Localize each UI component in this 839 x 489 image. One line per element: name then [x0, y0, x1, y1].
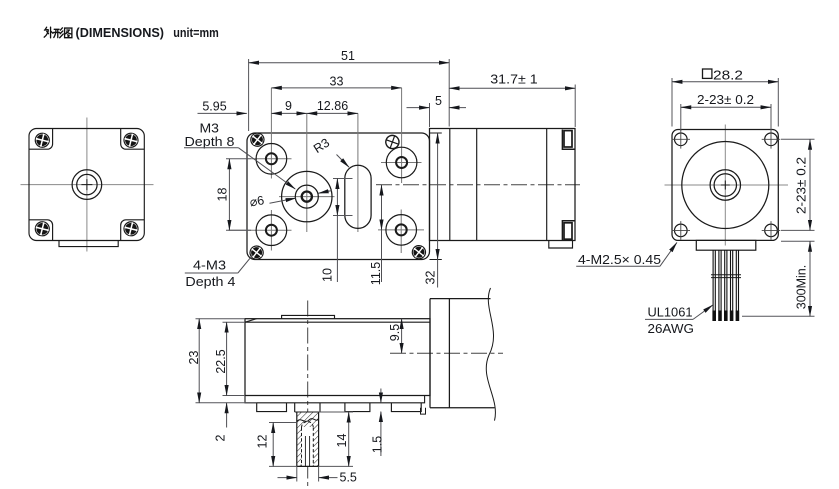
- svg-text:Depth 8: Depth 8: [185, 135, 235, 149]
- dim 5: [407, 107, 430, 109]
- svg-text:12: 12: [256, 435, 270, 449]
- inner top line: [245, 321, 430, 323]
- svg-text:(DIMENSIONS): (DIMENSIONS): [76, 26, 165, 40]
- hole crosshair BL: [229, 210, 292, 251]
- dim 33: [271, 87, 401, 89]
- mounting hole BR: [386, 215, 417, 246]
- hub circles view1: [72, 170, 102, 200]
- rear corner hole TL: [672, 130, 691, 149]
- plate screw BR: [410, 243, 429, 262]
- clip bottom right: [562, 221, 575, 241]
- mounting hole BL: [256, 215, 287, 246]
- dim 14: [348, 412, 350, 466]
- dim 22.5: [226, 322, 228, 395]
- plate bottom edge extension right: [430, 259, 442, 261]
- svg-text:1.5: 1.5: [371, 436, 385, 453]
- dim 300Min extensions: [742, 241, 815, 316]
- dim 5.95: [198, 112, 247, 114]
- dim 51: [249, 62, 450, 64]
- svg-text:23: 23: [187, 351, 201, 365]
- corner pocket TL: [29, 129, 52, 149]
- dim 32: [437, 133, 439, 260]
- break line wavy: [486, 288, 495, 421]
- title block: [44, 27, 72, 38]
- front view outline: [29, 129, 144, 241]
- output hub circles: [282, 171, 332, 221]
- shaft break wavy: [297, 419, 319, 422]
- screw view1 BL: [34, 220, 51, 237]
- svg-text:R3: R3: [311, 136, 332, 156]
- dim 10 extensions: [333, 179, 353, 216]
- dim 10: [336, 179, 338, 216]
- svg-text:2-23± 0.2: 2-23± 0.2: [697, 93, 754, 107]
- centerline cross view1: [21, 118, 154, 252]
- wire tie band: [711, 275, 741, 278]
- pad C: [391, 403, 421, 412]
- svg-text:9: 9: [285, 99, 292, 113]
- svg-text:11.5: 11.5: [369, 262, 383, 285]
- svg-text:12.86: 12.86: [317, 99, 348, 113]
- dim 23 extension: [196, 319, 257, 403]
- glyph tu: [65, 28, 72, 38]
- wire bundle: [713, 250, 738, 311]
- rear shaft circles: [710, 170, 740, 200]
- mounting hole TL: [256, 144, 287, 175]
- centerline cross view3: [665, 125, 789, 246]
- wire stripped tips: [712, 311, 739, 322]
- dim 22.5 extension: [223, 322, 246, 395]
- svg-text:5: 5: [435, 94, 442, 108]
- dim 9: [271, 112, 306, 114]
- svg-text:⌀6: ⌀6: [249, 193, 266, 209]
- svg-text:22.5: 22.5: [214, 349, 228, 373]
- rear corner hole TR: [762, 130, 781, 149]
- svg-text:33: 33: [330, 74, 344, 88]
- motor section lines: [450, 129, 547, 241]
- pad A: [257, 403, 287, 412]
- wire exit box: [696, 240, 756, 250]
- bore inner lines: [305, 436, 309, 466]
- plate top edge extension right: [430, 132, 442, 134]
- dim 31.7: [449, 87, 575, 89]
- dim 2-23 right extensions: [781, 139, 815, 230]
- body chamfer top-left: [245, 319, 257, 323]
- svg-text:4-M3: 4-M3: [193, 259, 226, 273]
- hole crosshair TL: [251, 88, 292, 179]
- dim 2-23 top extensions: [681, 104, 771, 131]
- dim 2-23 top: [681, 106, 771, 108]
- shaft boss: [295, 403, 320, 412]
- screw view1 TL: [34, 132, 51, 149]
- leader R3: [337, 155, 350, 168]
- dim 12: [272, 423, 274, 467]
- dim 18 extensions: [226, 159, 251, 230]
- shaft centerline: [307, 301, 309, 487]
- dim 300Min: [809, 241, 811, 316]
- dim 18: [228, 159, 230, 230]
- slot obround: [345, 165, 371, 228]
- dim 2-23 right: [809, 139, 811, 230]
- corner pocket TR: [121, 129, 144, 149]
- glyph xing: [54, 28, 64, 38]
- leader 4-M3: [238, 255, 253, 273]
- svg-text:5.95: 5.95: [202, 100, 226, 114]
- svg-text:14: 14: [335, 434, 349, 448]
- svg-text:28.2: 28.2: [713, 68, 743, 82]
- svg-text:32: 32: [424, 271, 438, 285]
- bore cap arc dashed: [302, 422, 314, 428]
- dim 28.2 extensions: [672, 78, 778, 127]
- clip top right: [562, 130, 575, 150]
- leader M3: [239, 148, 296, 189]
- pad B: [345, 403, 370, 412]
- rear body circle: [682, 142, 769, 229]
- leader UL1061: [693, 305, 713, 319]
- svg-text:9.5: 9.5: [388, 324, 402, 341]
- svg-text:10: 10: [321, 268, 335, 282]
- dim 23: [198, 319, 200, 403]
- svg-text:5.5: 5.5: [340, 471, 357, 485]
- dim 12.86: [307, 112, 358, 114]
- gearbox plate outline: [247, 133, 430, 260]
- svg-text:26AWG: 26AWG: [648, 322, 695, 336]
- plate screw BL: [247, 243, 266, 262]
- bottom view axis centerline: [390, 352, 503, 354]
- screw view1 BR: [123, 220, 140, 237]
- motor axis dash-dot: [376, 184, 580, 186]
- gearbox body bottom view: [245, 319, 430, 396]
- motor bottom step: [421, 408, 426, 414]
- output shaft section: [295, 412, 320, 466]
- shaft bore dashed: [302, 428, 314, 467]
- dim 28.2: [672, 81, 778, 83]
- rear corner hole BL: [672, 221, 691, 240]
- rear corner hole BR: [762, 221, 781, 240]
- rear flange outline: [672, 130, 778, 241]
- front view bottom tab: [59, 241, 118, 247]
- svg-text:2: 2: [214, 434, 228, 441]
- dim 5.5: [278, 477, 297, 479]
- svg-text:M3: M3: [200, 122, 220, 136]
- svg-text:300Min.: 300Min.: [795, 265, 809, 309]
- plate screw TR: [384, 134, 401, 151]
- hole crosshair BR: [378, 210, 424, 254]
- hub crosshair: [279, 113, 335, 232]
- screw view1 TR: [123, 132, 140, 149]
- corner pocket BR: [121, 220, 144, 240]
- dim 51 extension lines: [249, 59, 450, 131]
- svg-text:51: 51: [341, 49, 355, 63]
- svg-text:unit=mm: unit=mm: [173, 26, 219, 40]
- dim 12 extensions: [269, 423, 297, 467]
- svg-text:Depth 4: Depth 4: [185, 275, 235, 289]
- svg-text:UL1061: UL1061: [648, 306, 693, 320]
- leader dia6: [270, 198, 296, 203]
- dim 5.5 extensions: [297, 466, 319, 481]
- motor section bottom view: [430, 299, 495, 408]
- svg-text:2-23± 0.2: 2-23± 0.2: [795, 157, 809, 214]
- motor body top view: [430, 129, 576, 241]
- mounting hole TR: [386, 147, 417, 178]
- hole crosshair TR: [381, 88, 422, 183]
- dim 2: [226, 403, 228, 428]
- glyph wai: [44, 27, 53, 38]
- plate screw TL: [248, 130, 267, 149]
- dim 9.5: [401, 319, 403, 354]
- dim 31.7 extension: [574, 85, 576, 128]
- bottom tab motor: [549, 241, 573, 249]
- svg-text:4-M2.5× 0.45: 4-M2.5× 0.45: [578, 253, 661, 267]
- dim 5 extension: [429, 103, 431, 127]
- leader 4-M2.5: [660, 243, 677, 267]
- dim 1.5: [380, 389, 382, 403]
- dim 11.5: [381, 185, 383, 230]
- svg-text:18: 18: [216, 188, 230, 202]
- dim 14 extensions: [319, 412, 353, 466]
- svg-text:31.7± 1: 31.7± 1: [490, 73, 538, 87]
- slot centerline: [357, 113, 359, 232]
- top tab bottom view: [282, 315, 335, 318]
- bottom plate: [245, 396, 425, 403]
- corner pocket BL: [29, 220, 52, 240]
